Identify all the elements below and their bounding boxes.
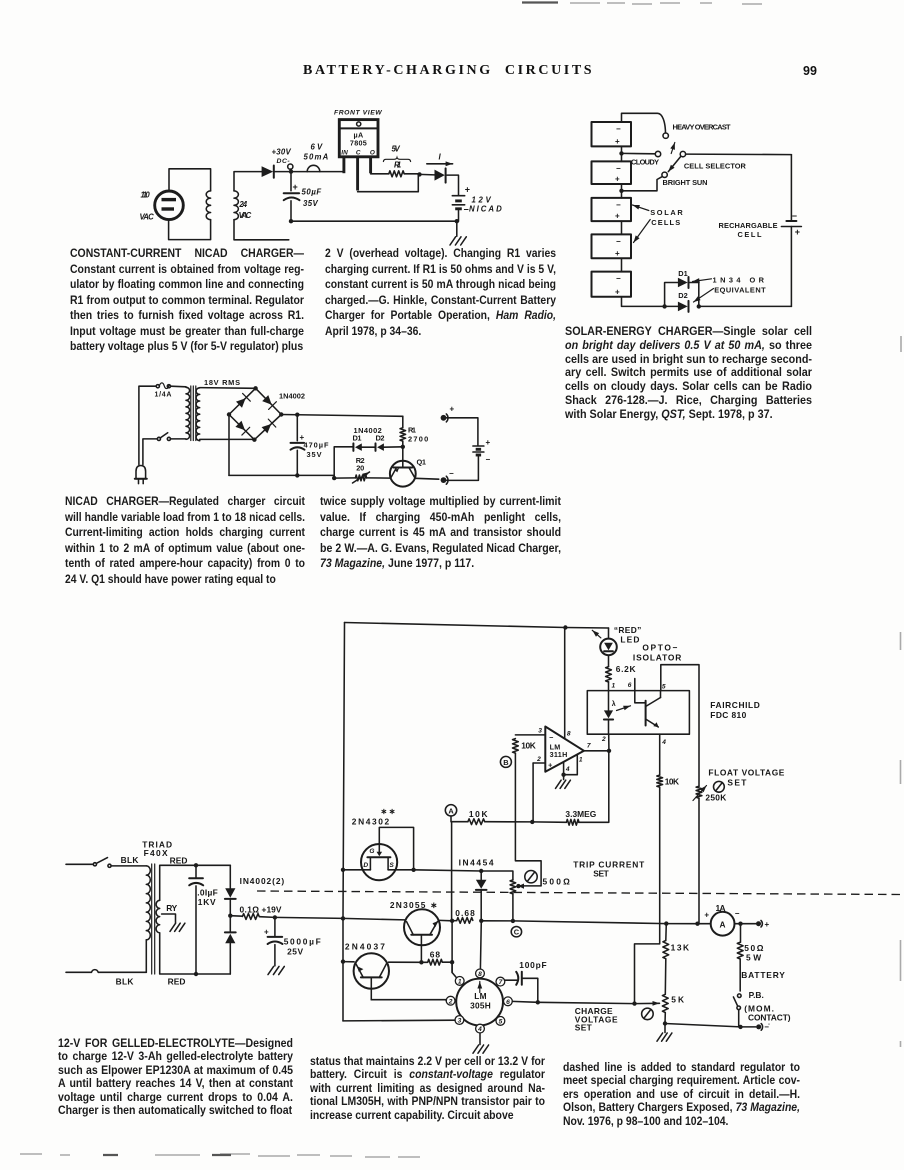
scan mark top — [522, 1, 558, 3]
pin 8 LM305H — [476, 969, 485, 978]
arrow to D2 — [694, 289, 714, 303]
wire D2 to battery B1 — [447, 175, 459, 195]
junction battery return — [455, 219, 459, 223]
svg-text:−: − — [486, 455, 491, 464]
wire bottom rail — [699, 305, 792, 307]
svg-text:1: 1 — [612, 682, 616, 689]
wire right rail down — [790, 155, 792, 220]
svg-text:3: 3 — [538, 727, 542, 734]
junction gate source — [411, 868, 415, 872]
pin 1 wire — [566, 755, 578, 775]
svg-text:2: 2 — [601, 736, 606, 743]
wire bottom return to battery — [291, 220, 457, 222]
text block: solar-energy charger — [565, 325, 812, 421]
svg-text:HEAVY OVERCAST: HEAVY OVERCAST — [673, 123, 731, 132]
transformer T1 primary winding — [206, 191, 210, 220]
svg-text:CELL SELECTOR: CELL SELECTOR — [684, 161, 747, 170]
wire 5K wiper — [635, 1002, 660, 1004]
pin 5 wire — [661, 665, 700, 787]
svg-text:+: + — [615, 249, 620, 258]
wire gate loop — [379, 827, 413, 869]
junction 50ohm — [738, 922, 742, 926]
svg-text:20: 20 — [356, 464, 364, 473]
svg-text:IN4454: IN4454 — [459, 857, 494, 867]
7805 C lead — [356, 157, 359, 191]
7805 IN lead — [342, 157, 345, 173]
svg-text:24: 24 — [238, 200, 247, 209]
junction D1 branch bottom — [332, 476, 336, 480]
wire D branch up — [334, 447, 353, 478]
svg-text:8: 8 — [478, 971, 482, 978]
svg-text:C: C — [356, 149, 361, 156]
wire top rail — [345, 623, 609, 629]
wire Q3 to A node — [440, 919, 452, 921]
svg-text:LED: LED — [620, 634, 639, 644]
wire red top corner — [229, 865, 231, 888]
wire secondary top — [160, 865, 196, 900]
arrow to cell3 — [633, 205, 649, 211]
resistor 3.3MEG — [566, 819, 579, 825]
pin 2 wire c4 — [533, 762, 545, 764]
ground RY — [170, 923, 185, 931]
svg-text:2: 2 — [536, 756, 541, 763]
diode D2 — [435, 170, 445, 181]
switch SW3 — [93, 863, 96, 866]
svg-text:CLOUDY: CLOUDY — [631, 158, 659, 167]
wire cell4-cell5 — [621, 258, 623, 271]
junction 100pF pin6 — [536, 1000, 540, 1004]
svg-text:BLK: BLK — [121, 855, 139, 865]
bridge diode upper-right — [262, 395, 272, 405]
wire Q4 base to pin2 — [371, 999, 446, 1001]
wire fuse to primary — [171, 385, 187, 388]
opto transistor — [645, 701, 647, 726]
svg-text:470µF: 470µF — [304, 440, 329, 449]
wire source — [388, 869, 414, 871]
pin 7 wire — [584, 750, 609, 752]
svg-text:500Ω: 500Ω — [543, 876, 571, 886]
trip pot wiper arrow — [518, 884, 524, 889]
svg-text:−: − — [735, 909, 740, 918]
svg-text:1N34 OR: 1N34 OR — [713, 275, 765, 284]
solar cell SC3 — [592, 198, 632, 221]
wire cell2-cell3 — [621, 184, 623, 198]
wire cloudy — [622, 152, 656, 154]
output terminal minus c4 — [756, 1024, 761, 1029]
svg-text:D1: D1 — [678, 269, 688, 278]
junction 250K main — [695, 922, 699, 926]
transformer T3 primary — [146, 866, 150, 940]
svg-text:R1: R1 — [408, 425, 416, 434]
wire pin3 10K down — [515, 753, 541, 886]
wire switch to primary — [171, 438, 187, 440]
svg-text:110: 110 — [141, 191, 151, 200]
svg-text:OPTO−: OPTO− — [642, 642, 677, 652]
svg-text:ISOLATOR: ISOLATOR — [633, 652, 681, 662]
wire D1 to junction — [690, 283, 699, 307]
wire AC top left — [66, 863, 93, 865]
pin 4 wire c4 — [563, 762, 565, 780]
svg-text:BATTERY: BATTERY — [741, 970, 785, 980]
wire pivot to right rail — [686, 153, 792, 156]
wire bridge right to top rail — [281, 415, 403, 417]
svg-text:5W: 5W — [746, 952, 761, 962]
svg-text:∗ ∗: ∗ ∗ — [381, 807, 396, 816]
svg-text:+: + — [465, 185, 470, 195]
svg-text:311H: 311H — [550, 750, 568, 759]
svg-text:SET: SET — [575, 1022, 593, 1032]
junction pin1 pin4 — [561, 773, 565, 777]
pin 4 wire — [659, 734, 661, 775]
ground LM311 — [556, 780, 571, 788]
svg-text:−: − — [616, 237, 621, 246]
wire anode to pot top — [481, 871, 513, 880]
wire pin4 down — [479, 1033, 481, 1045]
text block: nicad charger, right column — [320, 494, 561, 572]
junction wiper 500 — [516, 884, 520, 888]
wire R1 to junction — [404, 173, 419, 175]
resistor R1 — [389, 171, 404, 177]
svg-text:+: + — [795, 227, 800, 237]
svg-text:−: − — [616, 200, 621, 209]
bridge diode lower-left — [235, 421, 245, 431]
wire 6.2K to opto — [608, 682, 610, 691]
svg-text:BRIGHT SUN: BRIGHT SUN — [663, 178, 708, 187]
ground C4 — [268, 966, 284, 974]
resistor 10K horiz — [468, 819, 485, 825]
svg-text:D: D — [363, 862, 368, 869]
svg-text:18V RMS: 18V RMS — [204, 378, 240, 387]
svg-text:+: + — [486, 438, 491, 447]
pin 3 wire — [515, 734, 545, 736]
wire 19V to left rail — [275, 917, 343, 918]
opto LED — [608, 691, 610, 711]
switch SW2 — [157, 437, 160, 440]
wire pin2 stub — [445, 999, 447, 1002]
wire C main — [481, 921, 711, 924]
junction cloudy tap — [619, 151, 623, 155]
svg-text:RY: RY — [166, 903, 177, 913]
pin 8 wire — [564, 628, 566, 739]
resistor R2 20 variable — [355, 475, 366, 481]
arrow to D1 — [693, 279, 712, 282]
junction cap01 bottom — [194, 972, 198, 976]
junction pin7 node — [607, 749, 611, 753]
bridge rectifier 1N4002 diamond — [229, 388, 281, 439]
wire 68a — [421, 961, 427, 963]
svg-text:5: 5 — [499, 1019, 503, 1026]
LM305 internal arrow — [479, 982, 481, 993]
svg-text:305H: 305H — [470, 1000, 491, 1010]
svg-text:+: + — [264, 928, 269, 937]
wire secondary bottom to bridge — [200, 439, 255, 440]
bridge diode upper-left — [236, 398, 246, 408]
svg-text:−: − — [449, 469, 454, 478]
scan mark bottom — [20, 1154, 420, 1157]
transistor Q3 2N3055 — [404, 909, 440, 945]
pin 6 stub — [634, 679, 636, 691]
svg-text:100pF: 100pF — [519, 960, 546, 970]
svg-text:−: − — [616, 164, 621, 173]
adjust symbol 500 — [525, 871, 537, 883]
wire switch to T3 — [111, 865, 146, 867]
battery B1 12V NICAD — [452, 195, 464, 197]
wire pin2node to 3.3MEG — [532, 821, 566, 823]
optoisolator U2 FDC810 box — [587, 691, 689, 735]
wire rail to Q4 emitter — [343, 961, 354, 963]
pin 6 LM305H — [504, 997, 513, 1006]
svg-text:CONTACT): CONTACT) — [748, 1012, 791, 1022]
capacitor C4 5000uF 25V — [274, 917, 276, 936]
wire C return — [358, 176, 419, 192]
svg-text:C: C — [514, 928, 520, 937]
capacitor C1 50uF 35V — [290, 172, 292, 191]
transformer T2 core — [190, 386, 192, 441]
potentiometer 500 ohm — [510, 880, 516, 894]
junction rectifier out — [228, 914, 232, 918]
svg-text:VAC: VAC — [140, 213, 155, 222]
wire junction to R 0.1 — [230, 915, 242, 918]
svg-text:SET: SET — [593, 868, 609, 878]
svg-text:+19V: +19V — [262, 904, 282, 914]
regulator U1 uA7805 front view — [339, 120, 378, 157]
svg-text:+: + — [765, 920, 770, 929]
svg-text:Q1: Q1 — [417, 457, 427, 466]
wire bright sun — [622, 177, 662, 191]
svg-text:+: + — [293, 182, 298, 192]
resistor R1 2700 — [402, 416, 404, 427]
resistor 6.2K — [606, 667, 612, 682]
wire plug cord right — [143, 439, 158, 465]
svg-text:5V: 5V — [392, 145, 401, 154]
svg-text:λ: λ — [612, 700, 616, 708]
wire 13K to 5K — [664, 959, 667, 994]
wire cell5 to diode pair — [622, 297, 665, 307]
svg-text:1A: 1A — [716, 903, 726, 913]
transformer T2 primary winding — [186, 387, 190, 439]
solar cell SC1 — [592, 122, 632, 146]
op-amp U3 LM311H — [545, 727, 584, 772]
diode D1 1N34 — [678, 278, 688, 288]
switch PB mom contact — [738, 994, 742, 998]
diode D5 IN4454 — [480, 871, 482, 880]
junction 0.68 right — [479, 919, 483, 923]
svg-text:13K: 13K — [671, 942, 690, 952]
wire Q4 collector — [389, 961, 422, 963]
svg-text:−̇: −̇ — [764, 1022, 770, 1031]
junction pb bottom — [738, 1025, 742, 1029]
wire cell1 top to heavy overcast contact — [622, 113, 666, 133]
junction 470uF — [295, 413, 299, 417]
svg-text:+: + — [615, 137, 620, 146]
circuit breaker 6V 50mA — [307, 165, 320, 171]
svg-text:5: 5 — [662, 684, 666, 691]
wire source to IN4454 — [414, 870, 482, 871]
contact CLOUDY — [655, 151, 660, 156]
wire red bottom corner — [229, 944, 231, 975]
wire bridge left corner down — [228, 415, 230, 476]
wire secondary bottom rail — [234, 220, 289, 240]
page number 99 — [803, 64, 817, 78]
dashed line regulator boundary — [257, 891, 900, 895]
svg-text:RED: RED — [170, 855, 188, 865]
wire secondary bottom — [160, 933, 196, 974]
svg-text:.0IµF: .0IµF — [197, 887, 218, 897]
junction rail 19v — [341, 916, 345, 920]
junction 0.68 left — [450, 919, 454, 923]
svg-text:1N4002: 1N4002 — [279, 391, 305, 400]
wire O to resistor R1 — [371, 173, 389, 175]
pin 2 LM305H — [446, 996, 455, 1005]
rectifier D3 1N4002 top — [225, 888, 235, 898]
wire R2 to Q1 — [367, 477, 391, 479]
svg-text:R1: R1 — [394, 161, 402, 170]
wire R1 junction to Q1 base — [402, 447, 404, 461]
contact BRIGHT SUN — [662, 172, 667, 177]
pin 5 LM305H — [496, 1017, 505, 1026]
svg-text:4: 4 — [565, 766, 570, 773]
svg-text:−: − — [464, 205, 469, 215]
relay RY tap — [162, 914, 176, 923]
LED red indicator — [608, 628, 610, 639]
svg-text:+: + — [615, 287, 620, 296]
contact HEAVY OVERCAST — [663, 133, 668, 138]
svg-text:IN4002(2): IN4002(2) — [240, 876, 285, 886]
svg-text:7: 7 — [587, 742, 591, 749]
node +30V DC test point — [288, 164, 293, 169]
svg-text:G: G — [369, 848, 374, 855]
svg-text:−: − — [616, 274, 621, 283]
svg-text:BLK: BLK — [116, 976, 134, 986]
wire cell1-cell2 — [621, 146, 623, 161]
ground symbol circuit1 — [450, 237, 466, 245]
svg-text:10K: 10K — [665, 776, 679, 786]
svg-text:SET: SET — [727, 777, 747, 787]
wire 10K to pin2 node — [485, 821, 532, 823]
svg-text:2N4302: 2N4302 — [352, 816, 390, 826]
resistor 5K pot — [662, 994, 668, 1012]
adjust symbol float — [714, 781, 725, 792]
svg-text:IN: IN — [341, 149, 348, 156]
wire D3 to junction — [229, 899, 231, 916]
svg-text:VAC: VAC — [239, 211, 252, 220]
junction 5000uF — [273, 915, 277, 919]
junction rail 4037 — [341, 959, 345, 963]
svg-text:A: A — [448, 806, 454, 815]
pin 2 wire — [608, 734, 610, 749]
svg-text:DC‑: DC‑ — [277, 158, 291, 165]
svg-text:“RED”: “RED” — [614, 625, 641, 635]
svg-text:FLOAT VOLTAGE: FLOAT VOLTAGE — [708, 768, 784, 778]
ground 5K — [664, 1024, 666, 1033]
wire A line lower — [452, 921, 456, 978]
wire plug cord left — [139, 386, 156, 464]
svg-text:4: 4 — [477, 1026, 482, 1033]
wire D1 branch — [665, 283, 678, 307]
bridge corner junctions — [253, 386, 257, 390]
diode D2 1N34 — [678, 302, 688, 312]
svg-text:2N3055 ∗: 2N3055 ∗ — [390, 900, 437, 910]
running head BATTERY-CHARGING CIRCUITS — [303, 63, 594, 79]
text block: nicad charger, left column — [65, 494, 305, 588]
svg-text:+: + — [615, 212, 620, 221]
selector motion arc — [671, 143, 675, 154]
fuse F1 1/4A — [156, 385, 159, 388]
svg-text:35V: 35V — [303, 199, 318, 208]
wire pin2 up — [532, 763, 534, 822]
junction bright sun tap — [619, 189, 623, 193]
junction wiper 5K — [632, 1001, 636, 1005]
transistor Q4 2N4037 — [354, 953, 389, 988]
LED light arrow — [592, 630, 601, 638]
capacitor C2 470uF 35V — [296, 415, 298, 441]
bridge diode lower-right — [262, 424, 272, 433]
wire terminal to battery top — [446, 418, 478, 445]
battery B2 rechargeable cell — [786, 220, 796, 222]
diode D1 — [262, 166, 274, 177]
text block: constant-current nicad charger, left column — [70, 246, 304, 355]
svg-text:2: 2 — [448, 998, 453, 1005]
svg-text:EQUIVALENT: EQUIVALENT — [714, 285, 766, 294]
svg-text:FAIRCHILD: FAIRCHILD — [710, 700, 760, 710]
svg-text:D1: D1 — [353, 433, 362, 442]
potentiometer 250K — [696, 786, 702, 798]
wire battery to bottom rail — [790, 227, 792, 307]
7805 O lead — [369, 157, 372, 173]
node B — [500, 756, 511, 767]
ground LM305 — [473, 1045, 489, 1053]
svg-text:0.1Ω: 0.1Ω — [240, 904, 260, 914]
wire 68b — [442, 961, 452, 963]
svg-text:50mA: 50mA — [304, 153, 329, 162]
resistor R 0.1 ohm — [242, 914, 259, 920]
svg-text:CELL: CELL — [738, 230, 762, 239]
wire battery to ground — [458, 209, 460, 221]
svg-text:B: B — [503, 758, 508, 767]
wire left rail — [343, 623, 345, 1021]
svg-text:+: + — [615, 175, 620, 184]
junction top rail pin8 — [563, 625, 567, 629]
svg-text:6.2K: 6.2K — [616, 664, 636, 674]
svg-text:10K: 10K — [469, 809, 488, 819]
wire Q1 to output minus — [415, 477, 439, 480]
wire D2 to R1 junction — [384, 446, 403, 448]
wire A to 10K — [452, 821, 468, 823]
switch SW1 cell selector pivot — [680, 151, 685, 156]
wire 3.3MEG to output — [579, 751, 609, 823]
wire bottom rail c3 — [229, 474, 334, 476]
svg-text:12V: 12V — [472, 196, 492, 205]
junction D2 right — [697, 304, 701, 308]
transformer T3 core — [151, 864, 153, 974]
wire bottom out — [665, 1024, 756, 1027]
output terminal plus c4 — [756, 921, 761, 926]
diode D1 1N4002 c3 — [352, 443, 354, 451]
bracket 5V across R1 — [383, 158, 410, 162]
wire junction to diode D2 — [420, 173, 435, 176]
svg-text:S: S — [389, 862, 394, 869]
diode D2 1N4002 c3 — [375, 443, 377, 451]
pin 4 LM305H — [476, 1024, 485, 1033]
transistor Q2 2N4302 JFET — [361, 844, 397, 880]
svg-text:+: + — [548, 760, 553, 769]
svg-text:10K: 10K — [521, 740, 536, 750]
wire secondary top to bridge — [200, 387, 256, 390]
junction pin2 node — [530, 820, 534, 824]
svg-text:SOLAR: SOLAR — [650, 208, 683, 217]
svg-text:D2: D2 — [678, 291, 688, 300]
svg-text:6: 6 — [506, 999, 510, 1006]
